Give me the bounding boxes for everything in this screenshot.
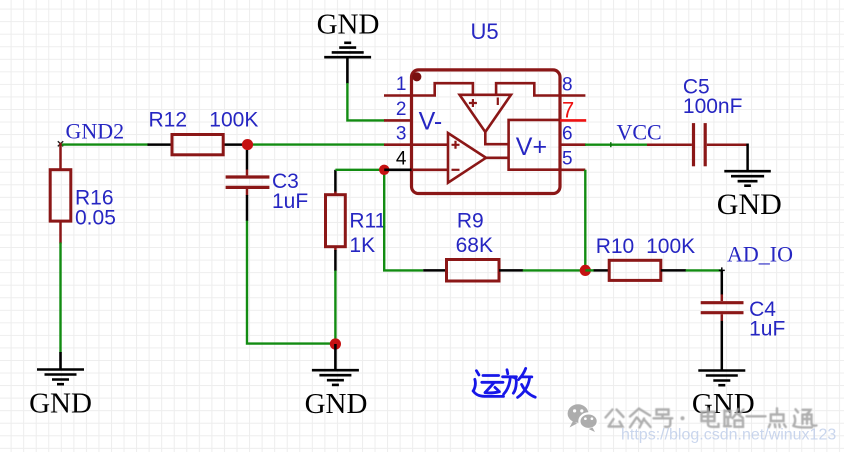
ground GND (bottom right, under C4) bbox=[698, 371, 745, 386]
capacitor C4 bbox=[701, 270, 786, 370]
node junction R12/C3/pin3 bbox=[242, 139, 253, 150]
svg-text:4: 4 bbox=[396, 148, 407, 169]
op-amp U5 internal circuit bbox=[412, 83, 561, 183]
wire pin 5 down to R9/R10 junction bbox=[584, 170, 586, 271]
resistor R11 bbox=[326, 170, 387, 271]
ground GND (right, under C5) bbox=[724, 171, 771, 186]
wire GND2 row (left of R12) bbox=[61, 143, 149, 145]
text 运放 (op-amp) annotation, hand-drawn glyphs bbox=[473, 368, 535, 397]
node VCC anchor tick bbox=[610, 142, 612, 147]
路 bbox=[724, 409, 744, 427]
svg-text:AD_IO: AD_IO bbox=[727, 242, 793, 267]
wire C3 to center ground bbox=[247, 221, 335, 344]
svg-text:100K: 100K bbox=[646, 235, 695, 258]
svg-text:1: 1 bbox=[396, 74, 407, 95]
pin 5 bbox=[560, 169, 585, 172]
众 bbox=[630, 409, 651, 428]
svg-text:68K: 68K bbox=[456, 234, 493, 257]
capacitor C5 bbox=[647, 75, 748, 166]
op-amp U5 pin-1 marker dot bbox=[412, 72, 421, 81]
resistor R10 bbox=[585, 235, 695, 280]
ground GND (center, under R11) bbox=[312, 344, 359, 385]
pin 3 bbox=[384, 143, 412, 146]
wire U5 pin4 junction to R11 top bbox=[335, 169, 384, 171]
capacitor C3 bbox=[226, 150, 309, 221]
电 bbox=[702, 408, 719, 427]
svg-text:7: 7 bbox=[562, 97, 574, 122]
op-amp U5 body bbox=[412, 70, 561, 194]
svg-text:GND: GND bbox=[29, 387, 92, 419]
svg-text:GND: GND bbox=[305, 388, 368, 420]
点 bbox=[769, 408, 786, 427]
wire R11 bottom to center ground bbox=[334, 271, 336, 345]
node junction R9/R10/pin5 bbox=[580, 265, 591, 276]
svg-text:https://blog.csdn.net/winux123: https://blog.csdn.net/winux123 bbox=[621, 427, 836, 444]
svg-text:1uF: 1uF bbox=[272, 190, 308, 213]
svg-text:V+: V+ bbox=[516, 133, 547, 161]
node junction pin4 bbox=[379, 165, 389, 175]
svg-text:R10: R10 bbox=[596, 235, 635, 258]
运 bbox=[476, 371, 479, 375]
svg-text:GND: GND bbox=[717, 188, 782, 221]
ground GND (top, net to U5 pin 2) bbox=[324, 43, 371, 84]
node AD_IO anchor tick bbox=[719, 267, 725, 273]
node GND2 anchor tick bbox=[58, 141, 63, 146]
node junction C3/R11/ground bbox=[330, 338, 341, 349]
svg-text:R11: R11 bbox=[349, 209, 386, 232]
一 bbox=[747, 415, 766, 417]
wire U5 pin4 down to R9 input bbox=[384, 170, 423, 271]
resistor R9 bbox=[423, 209, 523, 281]
wire R9 to junction bbox=[523, 269, 586, 271]
号 bbox=[654, 410, 673, 427]
pin 8 bbox=[560, 94, 585, 97]
svg-text:1K: 1K bbox=[349, 234, 375, 257]
svg-text:5: 5 bbox=[562, 148, 573, 169]
wire R10 to AD_IO / C4 bbox=[686, 269, 722, 271]
watermark text 公众号·电路一点通 (hand-drawn glyphs) bbox=[606, 408, 817, 427]
resistor R12 bbox=[148, 109, 259, 155]
svg-text:8: 8 bbox=[562, 75, 573, 96]
pin 6 bbox=[560, 143, 586, 146]
wire pin 6 to VCC / C5 bbox=[585, 143, 648, 145]
svg-text:3: 3 bbox=[396, 123, 407, 144]
pin 2 bbox=[384, 119, 412, 122]
wire R12 output to U5 pin 3 bbox=[248, 143, 385, 145]
wire top GND to U5 pin 2 bbox=[347, 83, 384, 120]
svg-text:6: 6 bbox=[562, 124, 573, 145]
ground GND (left, under R16) bbox=[37, 352, 84, 384]
svg-text:1uF: 1uF bbox=[749, 318, 785, 341]
通 bbox=[793, 409, 816, 427]
svg-text:0.05: 0.05 bbox=[75, 206, 116, 229]
pin 7 bbox=[560, 119, 586, 122]
wire C5 to right ground bbox=[746, 144, 749, 172]
svg-text:VCC: VCC bbox=[617, 120, 662, 145]
svg-text:2: 2 bbox=[396, 99, 407, 120]
op-amp U5 input polarity marks bbox=[452, 98, 498, 170]
svg-text:U5: U5 bbox=[471, 19, 499, 44]
svg-text:100nF: 100nF bbox=[683, 95, 743, 118]
svg-text:V-: V- bbox=[419, 107, 443, 135]
watermark wechat icon bbox=[568, 404, 598, 432]
wire R16 to ground bbox=[59, 243, 61, 353]
svg-text:100K: 100K bbox=[209, 109, 258, 132]
pin 1 bbox=[384, 94, 412, 97]
svg-text:GND: GND bbox=[317, 8, 380, 40]
svg-text:R9: R9 bbox=[457, 209, 484, 232]
· bbox=[681, 416, 685, 420]
resistor R16 bbox=[50, 143, 116, 244]
放 bbox=[506, 370, 510, 374]
svg-text:R12: R12 bbox=[149, 109, 188, 132]
svg-text:GND2: GND2 bbox=[66, 118, 125, 143]
公 bbox=[606, 410, 624, 427]
pin 4 bbox=[384, 169, 411, 172]
